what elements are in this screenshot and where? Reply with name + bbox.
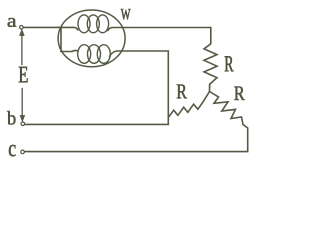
terminal label b bbox=[7, 111, 16, 125]
voltage E arrow up head bbox=[20, 30, 24, 36]
label R3 bbox=[234, 87, 244, 101]
wire current coil exit bbox=[108, 28, 211, 31]
wire line b bbox=[25, 123, 169, 125]
resistor R1 bbox=[204, 27, 217, 91]
voltage E arrow down head bbox=[20, 116, 24, 122]
label W bbox=[121, 9, 131, 20]
node b bbox=[21, 122, 25, 126]
node c bbox=[21, 150, 25, 154]
wire line a into wattmeter bbox=[23, 27, 78, 30]
terminal label c bbox=[9, 145, 16, 156]
wire potential coil to line b bbox=[110, 51, 169, 124]
label R2 bbox=[177, 85, 187, 99]
wattmeter U1 body bbox=[58, 10, 125, 67]
voltage E arrow up stem bbox=[21, 34, 23, 65]
wattmeter current coil bbox=[78, 15, 109, 33]
wire line c bbox=[25, 151, 248, 153]
voltage E arrow down stem bbox=[21, 88, 23, 116]
wire potential coil entry bbox=[61, 50, 78, 51]
label R1 bbox=[225, 56, 234, 71]
terminal label a bbox=[8, 18, 17, 27]
wattmeter left terminal bar bbox=[60, 27, 62, 51]
wattmeter potential coil bbox=[78, 45, 111, 64]
label E bbox=[19, 67, 28, 83]
resistor R2 bbox=[168, 92, 209, 118]
resistor R3 bbox=[210, 92, 248, 152]
node a bbox=[20, 26, 24, 30]
